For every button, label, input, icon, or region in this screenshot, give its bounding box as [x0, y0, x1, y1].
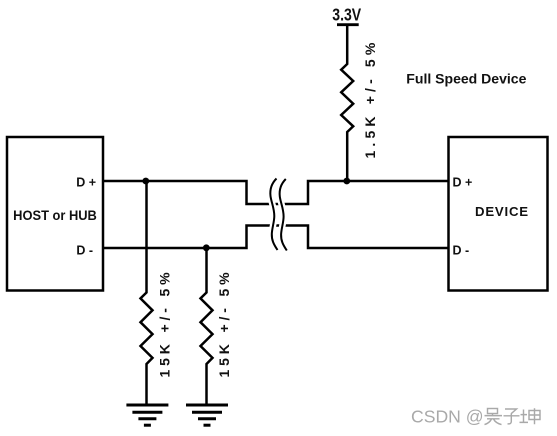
svg-text:15K +/- 5%: 15K +/- 5% — [156, 269, 172, 378]
wire D+ net (HOST D+ to DEVICE D+ with jog down through cable break) — [103, 181, 449, 204]
svg-text:D -: D - — [76, 243, 93, 257]
label U1 HOST or HUB — [13, 208, 97, 224]
label R3 value 15K +/- 5% — [216, 269, 232, 378]
label R2 value 15K +/- 5% — [156, 269, 172, 378]
label U2 pin D+ — [453, 176, 473, 190]
svg-text:D +: D + — [453, 176, 473, 190]
cable break mark (left squiggle with white gap) — [270, 179, 277, 251]
box U1 HOST or HUB — [7, 137, 103, 291]
label Full Speed Device — [406, 72, 526, 87]
watermark hanzi Kun — [520, 408, 541, 424]
watermark hanzi Wu — [485, 409, 503, 425]
label 3.3V — [332, 5, 361, 25]
resistor R2 15K pull-down (D+ to ground) — [141, 181, 153, 404]
label R1 value 1.5K +/- 5% — [362, 39, 378, 159]
svg-text:D -: D - — [453, 243, 470, 257]
resistor R3 15K pull-down (D- to ground) — [201, 248, 213, 404]
svg-text:D +: D + — [76, 176, 96, 190]
svg-text:3.3V: 3.3V — [332, 5, 361, 25]
label U2 DEVICE — [475, 204, 529, 219]
svg-text:CSDN @: CSDN @ — [411, 407, 484, 427]
svg-text:HOST or HUB: HOST or HUB — [13, 208, 97, 224]
label U1 pin D+ — [76, 176, 96, 190]
cable break mark (right squiggle with white gap) — [280, 179, 287, 251]
svg-text:15K +/- 5%: 15K +/- 5% — [216, 269, 232, 378]
svg-text:1.5K +/- 5%: 1.5K +/- 5% — [362, 39, 378, 159]
svg-text:Full Speed Device: Full Speed Device — [406, 72, 526, 87]
ground GND1 — [126, 405, 168, 425]
label U2 pin D- — [453, 243, 470, 257]
watermark CSDN — [411, 407, 484, 427]
node 3.3V power bar — [337, 23, 359, 26]
box U2 DEVICE — [449, 137, 548, 291]
label U1 pin D- — [76, 243, 93, 257]
ground GND2 — [186, 405, 228, 425]
resistor R1 1.5K pull-up (3.3V to D+) — [341, 25, 353, 181]
junction R2/D+ — [142, 178, 149, 185]
junction R3/D- — [203, 244, 210, 251]
watermark hanzi Zi — [504, 409, 520, 424]
junction R1/D+ — [343, 178, 350, 185]
wire D- net (HOST D- to DEVICE D- with jog up through cable break) — [103, 226, 449, 249]
svg-text:DEVICE: DEVICE — [475, 204, 529, 219]
